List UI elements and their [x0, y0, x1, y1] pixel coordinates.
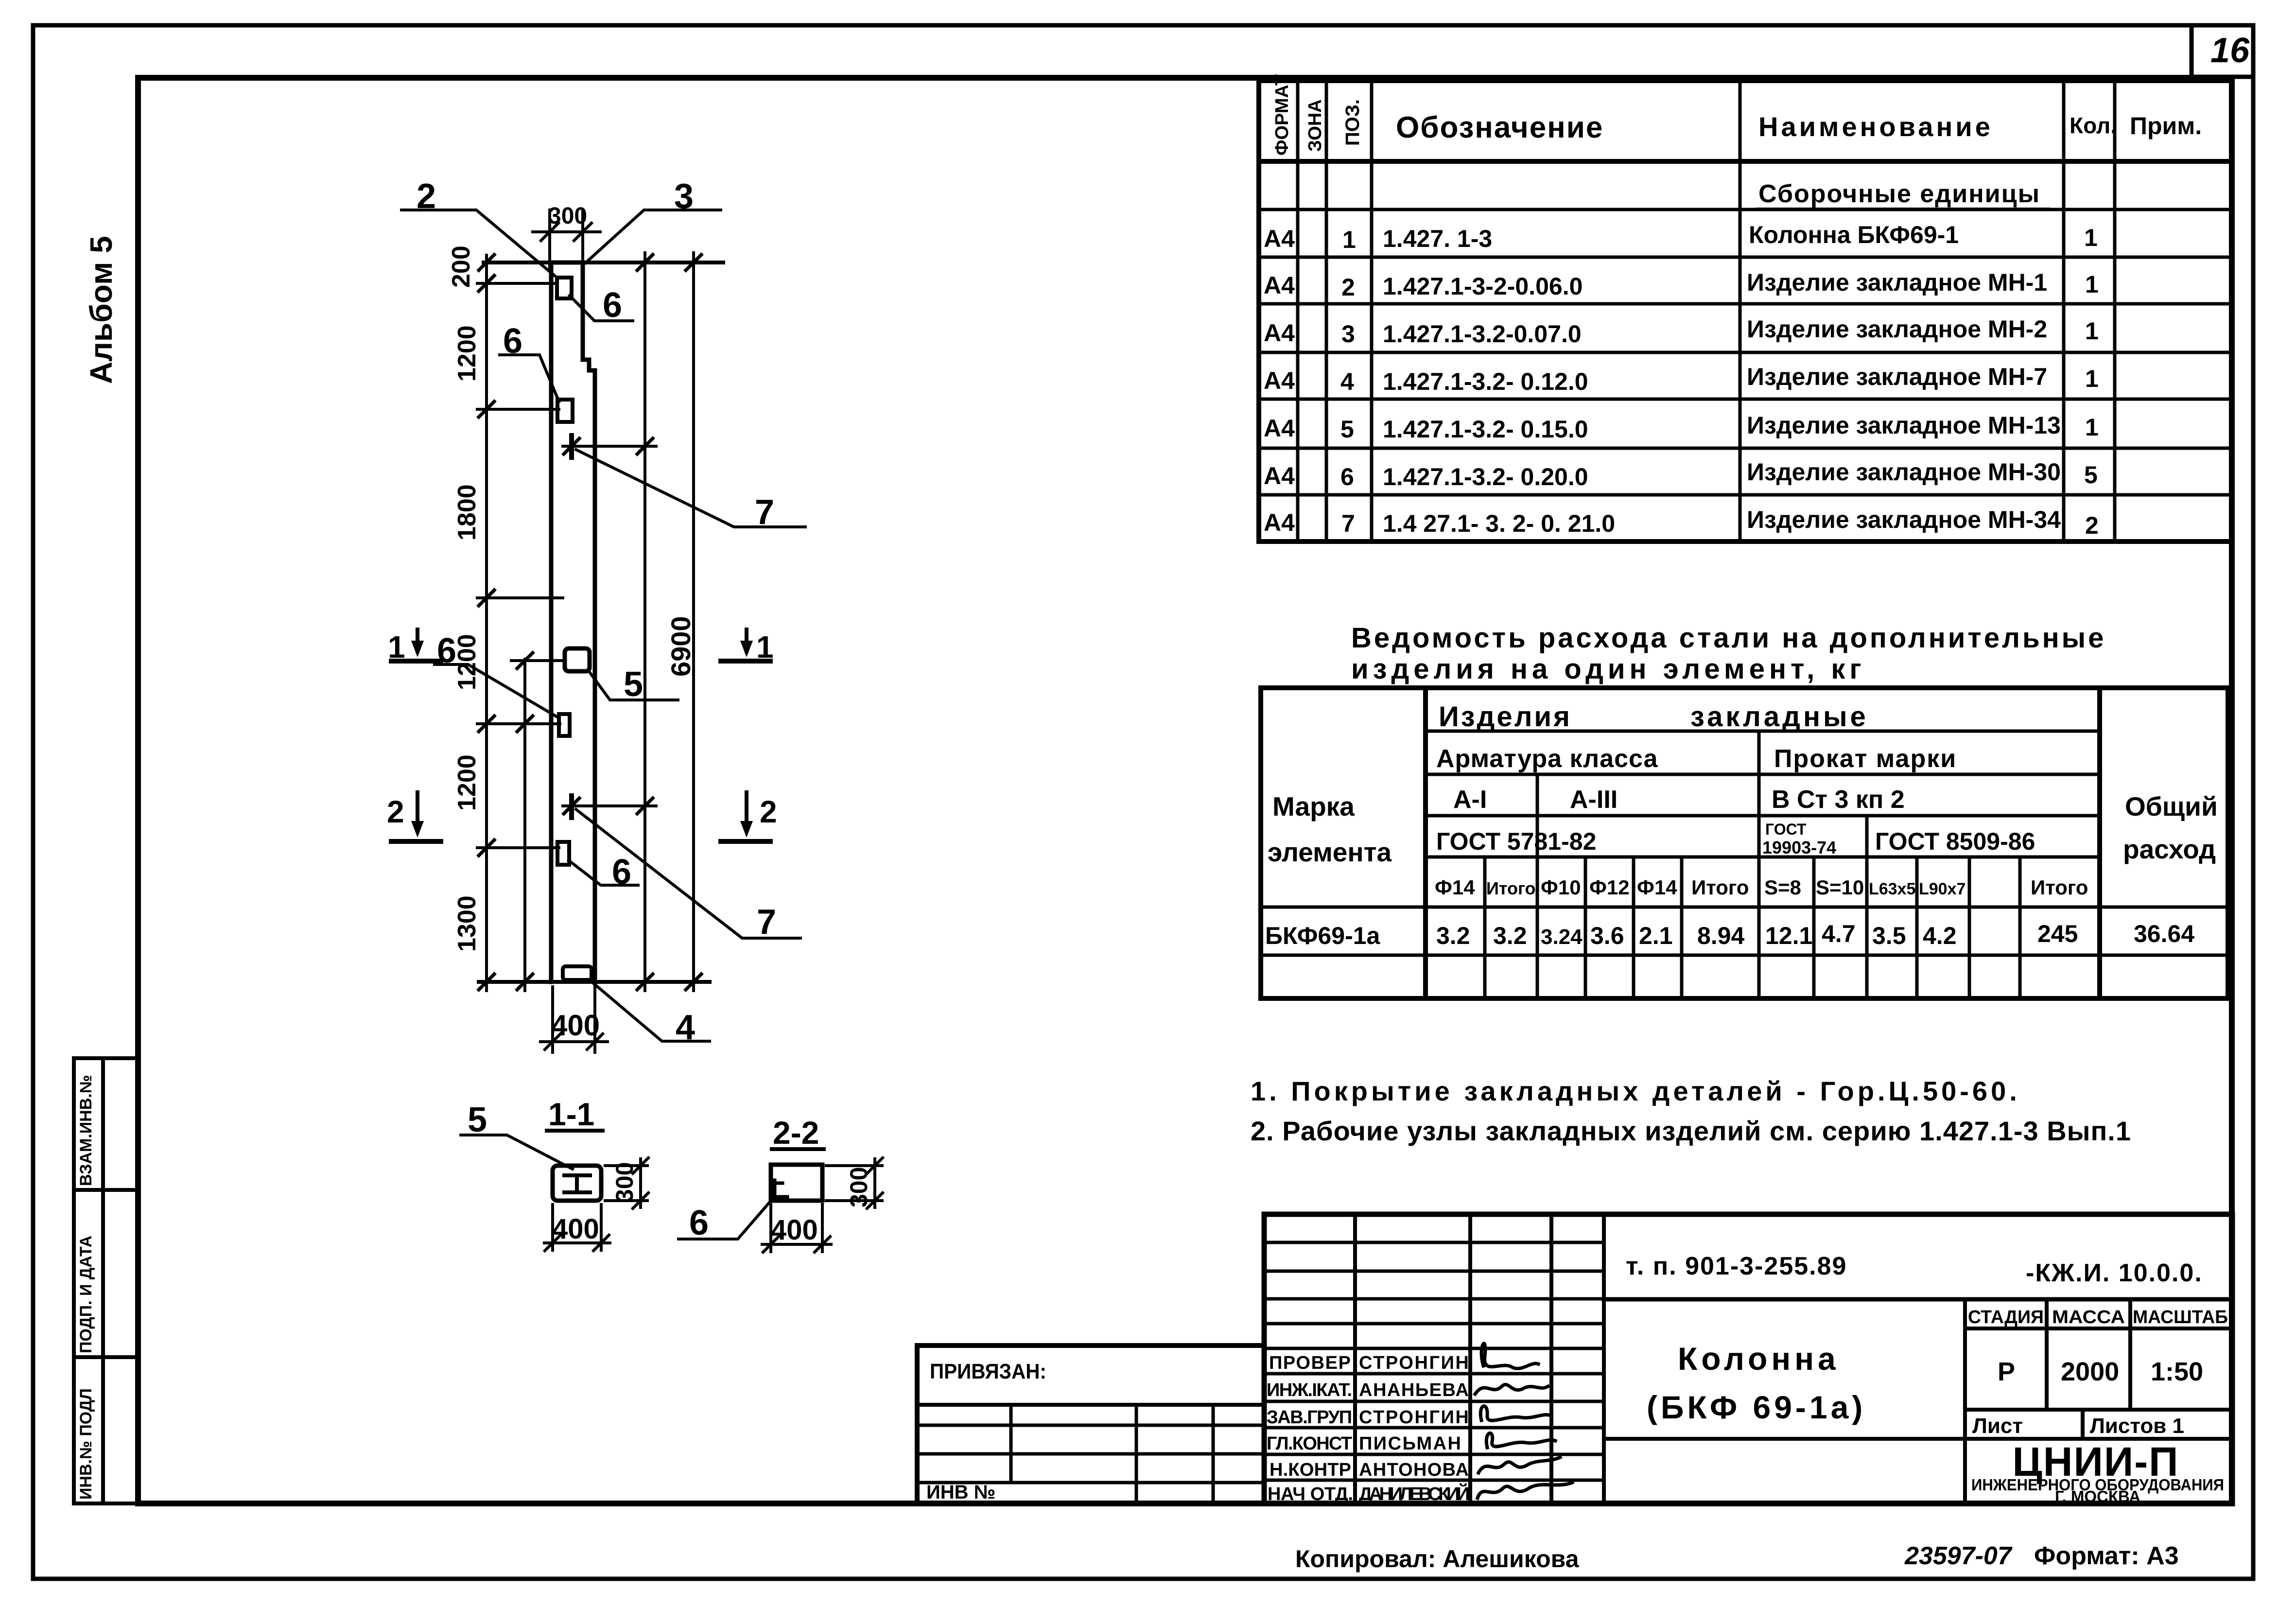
svg-text:Арматура класса: Арматура класса — [1436, 745, 1658, 773]
svg-text:Наименование: Наименование — [1758, 111, 1993, 142]
leader label 5 — [589, 665, 678, 704]
signature squiggles — [1475, 1344, 1572, 1498]
svg-text:7: 7 — [757, 903, 776, 942]
svg-text:1: 1 — [1342, 226, 1356, 253]
svg-text:А4: А4 — [1264, 272, 1295, 299]
svg-text:200: 200 — [447, 245, 475, 288]
spec row 5 — [1264, 412, 2099, 443]
angle item 6 in section 2-2 — [775, 1180, 787, 1197]
svg-text:Итого: Итого — [1691, 876, 1749, 899]
extension line level 1359 — [511, 659, 565, 662]
page number box 16 — [2192, 25, 2253, 77]
item 7 lower mark — [569, 796, 574, 818]
svg-text:ВЗАМ.ИНВ.№: ВЗАМ.ИНВ.№ — [77, 1075, 95, 1186]
svg-text:2-2: 2-2 — [773, 1115, 819, 1151]
svg-text:2: 2 — [2085, 512, 2099, 539]
steel table grid — [1261, 688, 2228, 998]
specification table grid — [1259, 81, 2231, 541]
svg-text:1: 1 — [2085, 271, 2099, 298]
svg-text:СТАДИЯ: СТАДИЯ — [1968, 1307, 2044, 1328]
svg-text:МАССА: МАССА — [2052, 1307, 2125, 1328]
svg-text:6900: 6900 — [665, 616, 696, 677]
svg-text:Ф10: Ф10 — [1541, 876, 1581, 899]
data row БКФ69-1а — [1265, 920, 2194, 949]
svg-text:1: 1 — [2085, 365, 2099, 392]
svg-text:т. п. 901-3-255.89: т. п. 901-3-255.89 — [1626, 1252, 1847, 1280]
svg-text:6: 6 — [689, 1204, 709, 1242]
extension line level 1489 — [477, 722, 560, 725]
svg-text:элемента: элемента — [1268, 837, 1392, 867]
embedded plate item 6 top — [557, 278, 572, 298]
svg-text:400: 400 — [771, 1214, 818, 1246]
svg-text:2000: 2000 — [2061, 1357, 2119, 1386]
signature rows: names — [1359, 1353, 1470, 1504]
svg-text:Изделия: Изделия — [1439, 701, 1572, 733]
svg-text:Марка: Марка — [1272, 791, 1355, 821]
svg-text:1.427.1-3.2- 0.12.0: 1.427.1-3.2- 0.12.0 — [1383, 368, 1588, 395]
svg-text:Г. МОСКВА: Г. МОСКВА — [2055, 1487, 2140, 1505]
leader label 6 right lower — [569, 853, 638, 891]
привязан table outline — [917, 1345, 1264, 1503]
svg-text:300: 300 — [611, 1162, 638, 1203]
svg-text:МАСШТАБ: МАСШТАБ — [2133, 1307, 2228, 1328]
section 2-2 dim 400 — [762, 1205, 831, 1252]
svg-text:ПРОВЕР: ПРОВЕР — [1269, 1353, 1351, 1373]
extension line level 1744 — [477, 846, 559, 849]
svg-text:ГОСТ 8509-86: ГОСТ 8509-86 — [1875, 828, 2035, 855]
svg-text:Итого: Итого — [2031, 876, 2088, 899]
svg-text:L63x5: L63x5 — [1869, 880, 1915, 898]
svg-text:Изделие закладное МН-7: Изделие закладное МН-7 — [1747, 363, 2047, 390]
svg-text:Формат: А3: Формат: А3 — [2034, 1542, 2179, 1570]
svg-text:А4: А4 — [1264, 509, 1295, 536]
svg-text:Колонна БКФ69-1: Колонна БКФ69-1 — [1749, 221, 1959, 248]
svg-text:Ф14: Ф14 — [1637, 876, 1677, 899]
svg-text:7: 7 — [1341, 510, 1355, 537]
svg-text:3.5: 3.5 — [1872, 922, 1906, 949]
svg-text:4.7: 4.7 — [1822, 920, 1856, 947]
svg-text:5: 5 — [1340, 416, 1354, 443]
stamp outline — [1264, 1214, 2232, 1503]
svg-text:изделия на один элемент, кг: изделия на один элемент, кг — [1351, 653, 1866, 685]
svg-text:ПРИВЯЗАН:: ПРИВЯЗАН: — [930, 1360, 1046, 1383]
svg-text:Изделие закладное МН-30: Изделие закладное МН-30 — [1747, 458, 2061, 486]
привязан header cell line — [917, 1403, 1264, 1407]
column bottom line — [479, 980, 710, 984]
embedded plate item 6 fourth — [557, 842, 569, 865]
svg-text:В Ст 3 кп 2: В Ст 3 кп 2 — [1772, 786, 1905, 814]
embedded plate item 6 second — [557, 400, 573, 422]
svg-text:ПОЗ.: ПОЗ. — [1342, 99, 1363, 146]
leader label 4 — [593, 983, 710, 1047]
stamp header line — [1604, 1297, 2232, 1302]
svg-text:АНАНЬЕВА: АНАНЬЕВА — [1359, 1380, 1469, 1400]
svg-text:А4: А4 — [1264, 367, 1295, 394]
leader label 6 top — [570, 286, 633, 325]
svg-text:Лист: Лист — [1972, 1414, 2023, 1438]
leader label 7 lower — [576, 809, 800, 942]
svg-text:Альбом 5: Альбом 5 — [84, 236, 119, 384]
svg-text:Листов 1: Листов 1 — [2090, 1414, 2184, 1438]
item 7 upper mark — [569, 436, 574, 457]
svg-text:1.427.1-3.2-0.07.0: 1.427.1-3.2-0.07.0 — [1383, 320, 1582, 348]
section 1-1 title — [547, 1096, 603, 1132]
overall 6900 dimension line — [692, 253, 695, 991]
svg-text:5: 5 — [624, 665, 643, 704]
svg-text:Обозначение: Обозначение — [1396, 111, 1603, 144]
section mark 1 left — [388, 629, 441, 664]
dimension line mid — [644, 253, 646, 991]
spec row 2 — [1264, 269, 2099, 301]
svg-text:400: 400 — [552, 1213, 599, 1245]
svg-text:4: 4 — [1340, 368, 1354, 395]
signature rows: roles — [1267, 1353, 1353, 1504]
svg-text:ЗОНА: ЗОНА — [1305, 99, 1325, 152]
svg-text:ИНВ №: ИНВ № — [926, 1482, 995, 1503]
svg-text:А4: А4 — [1264, 319, 1295, 347]
svg-text:ФОРМАТ: ФОРМАТ — [1272, 74, 1292, 156]
embedded plate item 5 console — [565, 648, 590, 671]
svg-text:3: 3 — [1341, 320, 1355, 348]
svg-text:Р: Р — [1998, 1357, 2015, 1386]
svg-text:5: 5 — [2084, 461, 2098, 489]
svg-text:2. Рабочие узлы закладных изде: 2. Рабочие узлы закладных изделий см. се… — [1251, 1116, 2131, 1146]
svg-text:расход: расход — [2123, 834, 2216, 864]
section mark 2 right — [721, 792, 777, 841]
svg-text:1: 1 — [2085, 414, 2099, 441]
spec row 1 — [1264, 221, 2098, 253]
svg-text:3.24: 3.24 — [1541, 925, 1583, 949]
svg-text:16: 16 — [2210, 31, 2250, 70]
section 1-1 outline — [553, 1166, 601, 1201]
leader label 6 left mid — [435, 631, 559, 718]
svg-text:ГОСТ: ГОСТ — [1765, 821, 1807, 838]
svg-text:1.4 27.1- 3. 2- 0. 21.0: 1.4 27.1- 3. 2- 0. 21.0 — [1383, 510, 1615, 537]
dimension tick marks — [479, 255, 701, 990]
svg-text:1.427.1-3-2-0.06.0: 1.427.1-3-2-0.06.0 — [1383, 273, 1583, 300]
channel item 5 in section 1-1 — [564, 1175, 590, 1192]
embedded plate item 6 third — [559, 714, 570, 736]
svg-text:ДАНИЛЕВСКИЙ: ДАНИЛЕВСКИЙ — [1359, 1483, 1470, 1504]
svg-text:А-I: А-I — [1453, 786, 1487, 814]
svg-text:Копировал: Алешикова: Копировал: Алешикова — [1295, 1545, 1580, 1572]
section mark 2 left — [387, 792, 441, 841]
svg-text:Прим.: Прим. — [2130, 112, 2202, 140]
stamp verticals — [1355, 1214, 1965, 1503]
leader label 2 — [401, 177, 555, 276]
svg-text:Общий: Общий — [2125, 791, 2218, 821]
svg-text:1800: 1800 — [453, 484, 481, 541]
svg-text:Изделие закладное МН-1: Изделие закладное МН-1 — [1747, 269, 2047, 296]
svg-text:А4: А4 — [1264, 415, 1295, 442]
svg-text:S=8: S=8 — [1764, 876, 1801, 899]
svg-text:L90x7: L90x7 — [1919, 880, 1966, 898]
svg-text:ПОДП. И ДАТА: ПОДП. И ДАТА — [77, 1236, 95, 1353]
svg-text:ГОСТ 5781-82: ГОСТ 5781-82 — [1436, 828, 1596, 855]
svg-text:2: 2 — [387, 794, 404, 829]
svg-text:3.6: 3.6 — [1590, 922, 1624, 949]
svg-text:36.64: 36.64 — [2134, 920, 2194, 947]
svg-text:Ведомость расхода стали на доп: Ведомость расхода стали на дополнительны… — [1351, 622, 2106, 654]
left margin stamp table — [74, 1058, 138, 1503]
svg-text:Ф14: Ф14 — [1435, 876, 1475, 899]
svg-text:S=10: S=10 — [1816, 876, 1864, 899]
svg-text:А4: А4 — [1264, 462, 1295, 489]
svg-text:БКФ69-1а: БКФ69-1а — [1265, 922, 1381, 949]
embedded plate item 4 bottom — [563, 966, 591, 980]
signature block rows — [1264, 1242, 1604, 1480]
svg-text:Изделие закладное МН-13: Изделие закладное МН-13 — [1747, 412, 2061, 439]
svg-text:1.427.1-3.2- 0.15.0: 1.427.1-3.2- 0.15.0 — [1383, 416, 1588, 443]
leader label 7 upper — [576, 450, 805, 532]
svg-text:2: 2 — [760, 794, 777, 829]
stage grid — [1965, 1299, 2232, 1439]
extension line level 583 — [477, 282, 554, 285]
bottom 400 dimension — [540, 987, 608, 1052]
svg-text:1200: 1200 — [453, 754, 481, 811]
svg-text:3.2: 3.2 — [1493, 922, 1527, 949]
svg-text:245: 245 — [2037, 920, 2078, 947]
spec row 3 — [1264, 315, 2099, 348]
spec row 4 — [1264, 363, 2099, 395]
section 2-2 outline — [771, 1165, 822, 1201]
svg-text:1300: 1300 — [453, 895, 481, 952]
section 1-1 dim 400 — [544, 1205, 610, 1251]
leader label 3 — [583, 177, 721, 265]
svg-text:6: 6 — [603, 286, 622, 325]
svg-text:23597-07: 23597-07 — [1904, 1542, 2013, 1570]
svg-text:1-1: 1-1 — [548, 1096, 594, 1132]
section 2-2 dim 300 — [826, 1158, 883, 1208]
svg-text:400: 400 — [551, 1009, 600, 1042]
svg-text:2.1: 2.1 — [1639, 922, 1673, 949]
svg-text:А-III: А-III — [1570, 786, 1618, 814]
svg-text:1200: 1200 — [453, 325, 481, 382]
svg-text:А4: А4 — [1264, 225, 1295, 252]
leader label 5 section — [461, 1100, 573, 1169]
svg-text:(БКФ 69-1а): (БКФ 69-1а) — [1647, 1389, 1866, 1425]
svg-text:Ф12: Ф12 — [1589, 876, 1630, 899]
svg-text:1:50: 1:50 — [2151, 1357, 2203, 1386]
svg-text:-КЖ.И. 10.0.0.: -КЖ.И. 10.0.0. — [2026, 1259, 2203, 1287]
extension line level 842 — [477, 408, 559, 411]
row Сборочные единицы — [1757, 180, 2049, 209]
svg-text:1.427.1-3.2- 0.20.0: 1.427.1-3.2- 0.20.0 — [1383, 463, 1588, 490]
svg-text:Сборочные единицы: Сборочные единицы — [1758, 180, 2040, 208]
leader label 6 section — [678, 1200, 772, 1242]
svg-text:300: 300 — [548, 203, 587, 229]
svg-text:1.427. 1-3: 1.427. 1-3 — [1383, 225, 1492, 252]
extension line level 1230 — [477, 596, 563, 599]
left dimension chain line — [485, 255, 488, 991]
svg-text:Изделие закладное МН-2: Изделие закладное МН-2 — [1747, 315, 2047, 343]
top drawing line — [484, 261, 723, 264]
spec row 7 — [1264, 506, 2099, 539]
svg-text:1: 1 — [2085, 317, 2099, 345]
svg-text:ИНЖ.IКАТ.: ИНЖ.IКАТ. — [1267, 1380, 1352, 1400]
svg-text:ГЛ.КОНСТ: ГЛ.КОНСТ — [1267, 1433, 1352, 1454]
second dimension chain line — [523, 659, 526, 991]
svg-text:8.94: 8.94 — [1697, 922, 1745, 949]
svg-text:Итого: Итого — [1486, 878, 1536, 898]
svg-text:ЗАВ.ГРУП: ЗАВ.ГРУП — [1267, 1407, 1352, 1428]
svg-text:ПИСЬМАН: ПИСЬМАН — [1359, 1433, 1461, 1454]
svg-text:Колонна: Колонна — [1678, 1341, 1840, 1377]
spec row 6 — [1264, 458, 2098, 490]
name cell bottom line — [1604, 1437, 1965, 1441]
svg-text:1200: 1200 — [453, 634, 481, 690]
svg-text:АНТОНОВА: АНТОНОВА — [1359, 1460, 1469, 1480]
item 7 upper level line — [563, 445, 656, 448]
svg-text:НАЧ ОТД.: НАЧ ОТД. — [1268, 1484, 1353, 1504]
column outline — [551, 262, 595, 982]
section 2-2 title — [772, 1115, 824, 1151]
leader label 6 left upper — [500, 322, 559, 402]
svg-text:2: 2 — [1341, 274, 1355, 301]
svg-text:3.2: 3.2 — [1436, 922, 1470, 949]
item 7 lower level line — [563, 804, 656, 807]
section mark 1 right — [721, 629, 774, 664]
svg-text:Изделие закладное МН-34: Изделие закладное МН-34 — [1747, 506, 2061, 533]
svg-text:Н.КОНТР: Н.КОНТР — [1270, 1460, 1351, 1480]
svg-text:Прокат марки: Прокат марки — [1774, 745, 1957, 773]
привязан grid — [917, 1405, 1264, 1503]
svg-text:300: 300 — [845, 1167, 872, 1207]
svg-text:6: 6 — [1340, 463, 1354, 490]
section 1-1 dim 300 — [605, 1158, 648, 1208]
units row — [1435, 876, 2088, 899]
svg-text:1: 1 — [2084, 224, 2098, 251]
svg-text:Кол.: Кол. — [2070, 113, 2117, 138]
svg-text:4.2: 4.2 — [1923, 922, 1957, 949]
svg-text:ИНВ.№ ПОДЛ: ИНВ.№ ПОДЛ — [77, 1388, 95, 1500]
top 300 dimension — [533, 210, 600, 271]
svg-text:12.1: 12.1 — [1765, 922, 1812, 949]
svg-text:19903-74: 19903-74 — [1762, 838, 1836, 857]
svg-text:1. Покрытие закладных деталей: 1. Покрытие закладных деталей - Гор.Ц.50… — [1251, 1076, 2020, 1106]
svg-text:закладные: закладные — [1690, 701, 1869, 733]
